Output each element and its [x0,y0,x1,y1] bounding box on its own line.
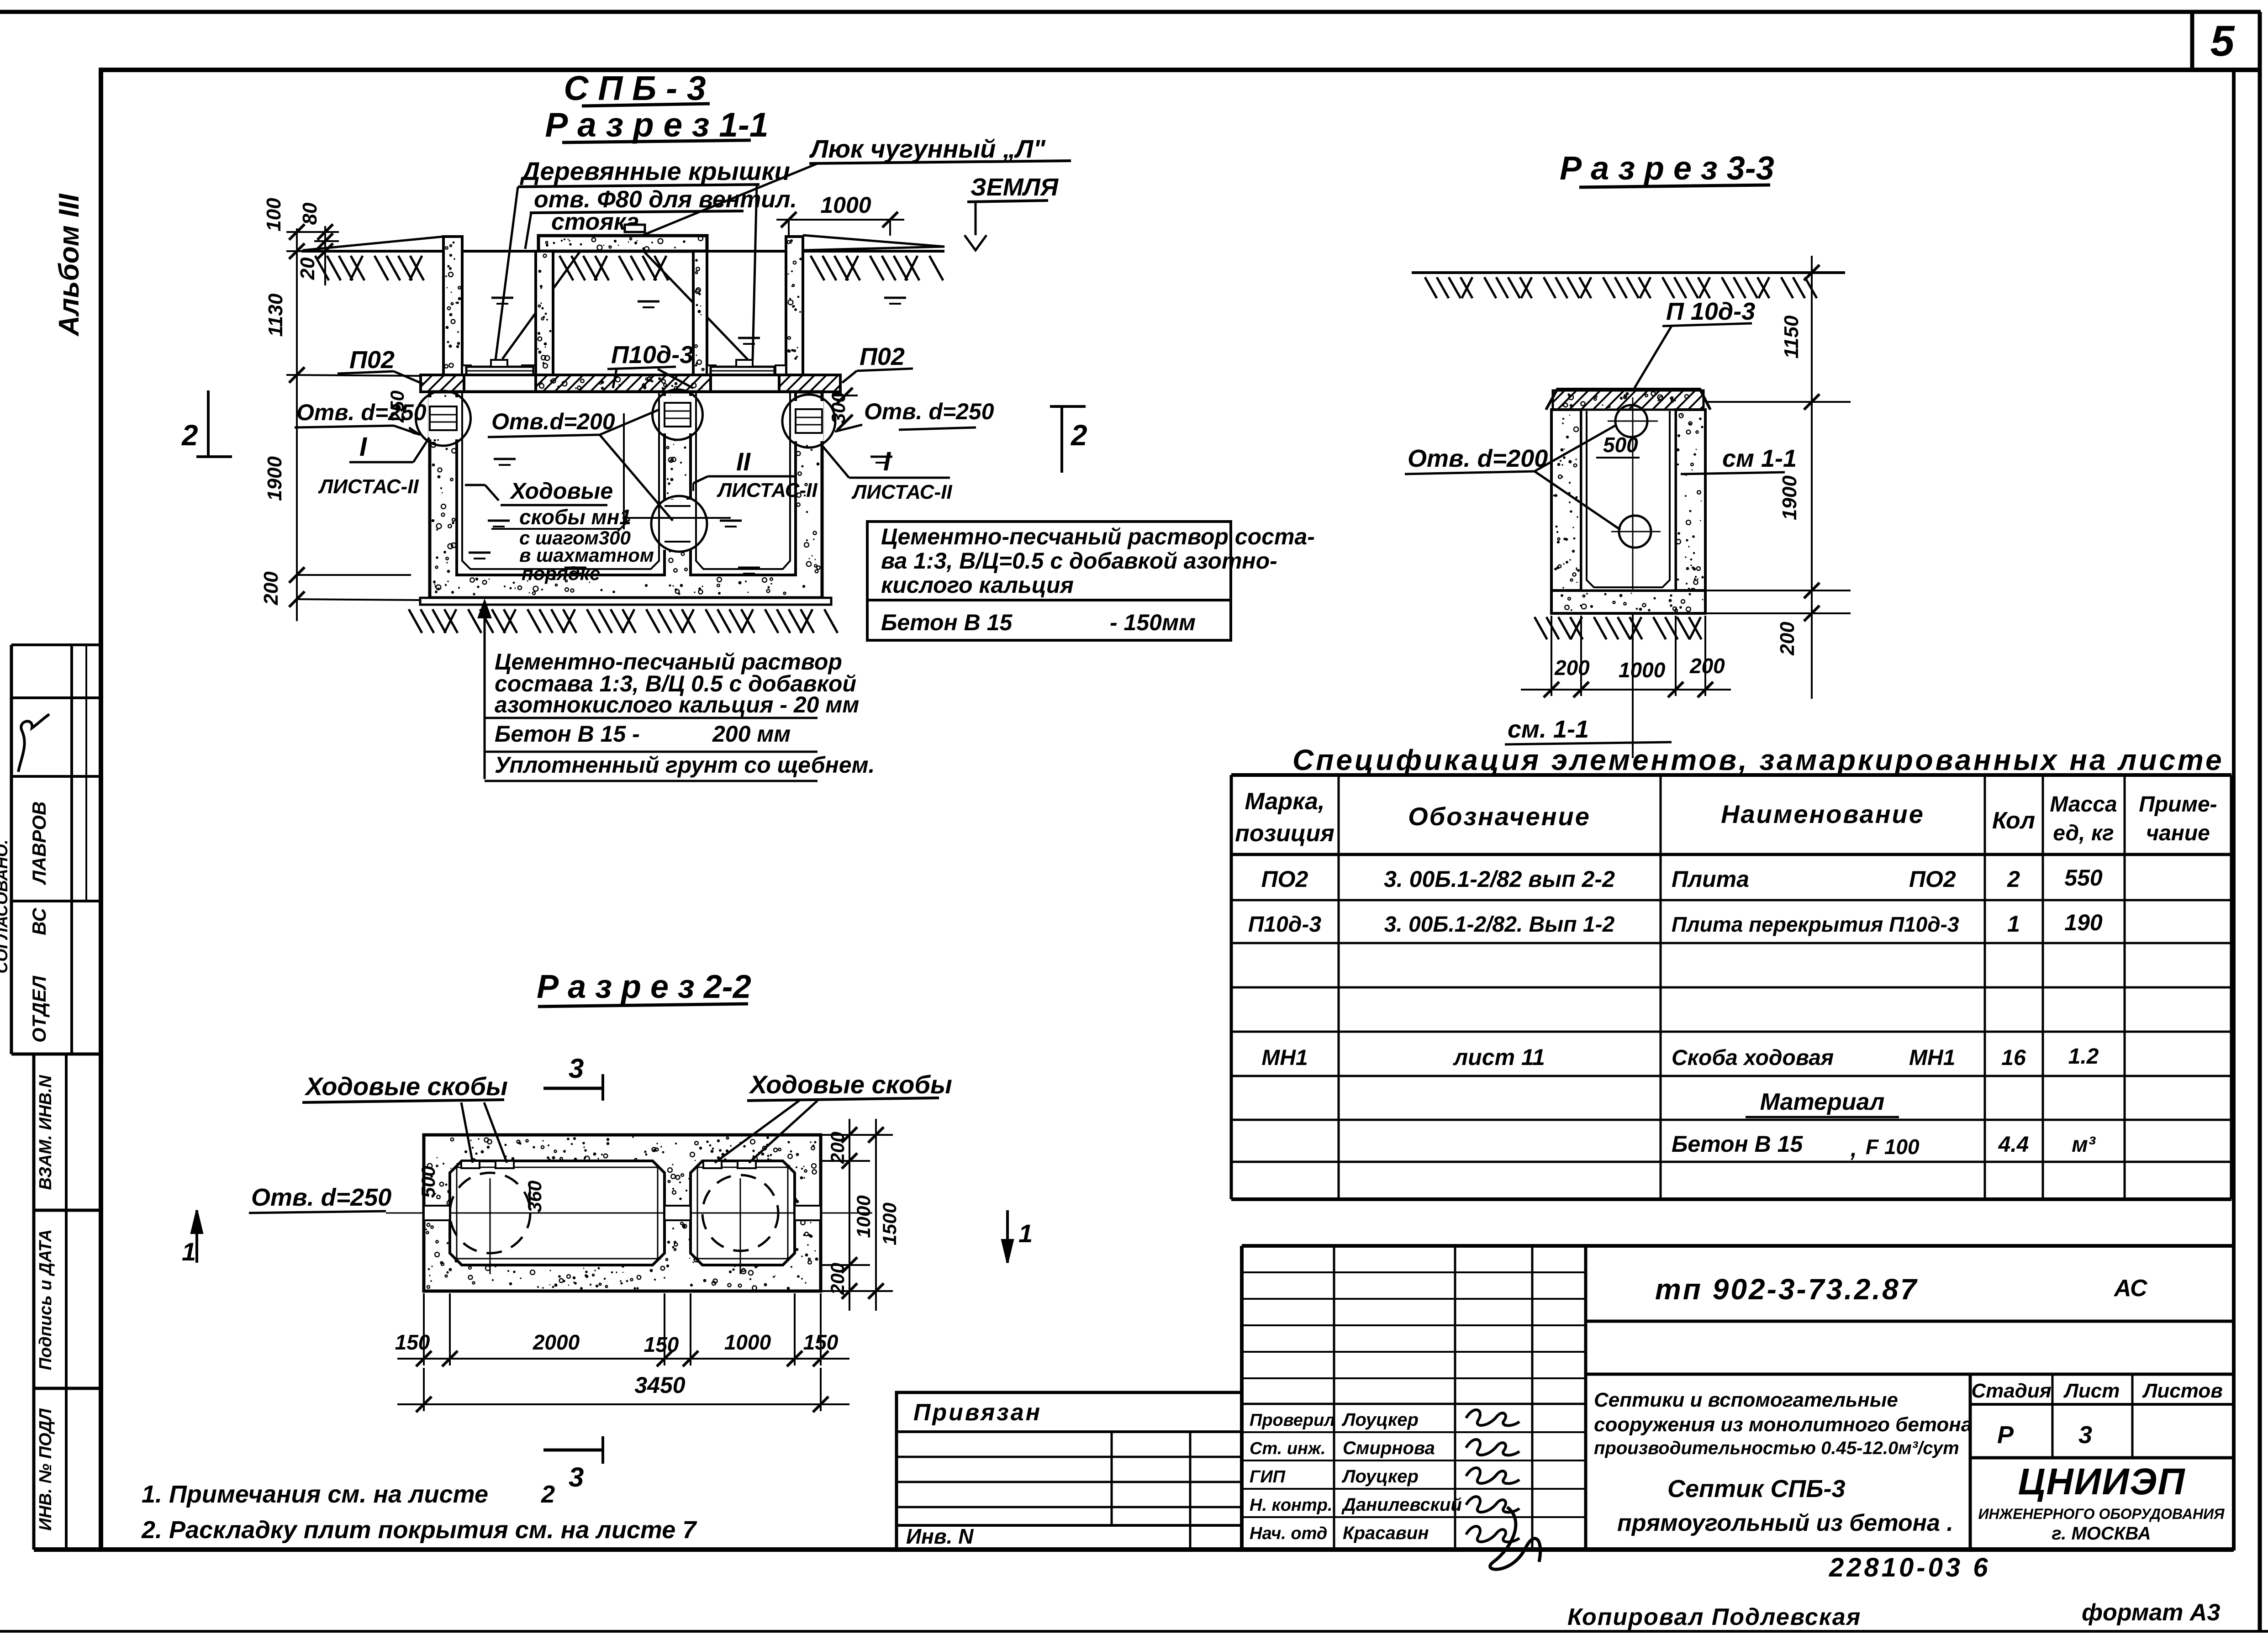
svg-text:Спецификация элементов, замарк: Спецификация элементов, замаркированных … [1292,743,2224,776]
svg-text:прямоугольный из бетона .: прямоугольный из бетона . [1617,1510,1953,1536]
svg-text:250: 250 [386,390,408,423]
svg-text:1. Примечания см. на листе: 1. Примечания см. на листе [142,1481,488,1508]
svg-text:1000: 1000 [853,1195,874,1238]
svg-text:1900: 1900 [1778,475,1801,520]
svg-text:м³: м³ [2072,1133,2096,1157]
svg-text:5: 5 [2210,17,2235,65]
svg-text:300: 300 [828,392,849,424]
svg-text:II: II [736,447,751,476]
svg-text:Стадия: Стадия [1971,1380,2051,1402]
svg-text:22810-03 6: 22810-03 6 [1829,1553,1990,1582]
svg-text:СОГЛАСОВАНО.: СОГЛАСОВАНО. [0,839,11,973]
svg-text:1.2: 1.2 [2068,1044,2099,1069]
svg-text:Кол: Кол [1992,807,2035,834]
svg-text:3. 00Б.1-2/82. Вып 1-2: 3. 00Б.1-2/82. Вып 1-2 [1384,912,1615,937]
svg-text:1: 1 [1018,1219,1033,1248]
svg-text:500: 500 [1603,433,1638,457]
svg-text:Септики и вспомогательные: Септики и вспомогательные [1594,1389,1898,1411]
svg-text:формат А3: формат А3 [2082,1599,2220,1626]
svg-text:ГИП: ГИП [1250,1467,1286,1487]
svg-text:1130: 1130 [264,293,287,337]
svg-text:1900: 1900 [264,456,286,501]
svg-text:Лист: Лист [2063,1380,2120,1402]
svg-text:,: , [1850,1136,1857,1161]
svg-text:ЛИСТАС-II: ЛИСТАС-II [318,475,419,498]
svg-text:Наименование: Наименование [1721,800,1925,828]
svg-text:1: 1 [182,1237,196,1266]
svg-text:чание: чание [2146,821,2210,845]
svg-text:Деревянные крышки: Деревянные крышки [520,157,790,185]
svg-text:200: 200 [827,1263,848,1295]
svg-text:Копировал Подлевская: Копировал Подлевская [1567,1604,1861,1630]
svg-text:200: 200 [260,571,282,606]
svg-text:2. Раскладку плит покрытия: 2. Раскладку плит покрытия см. на листе … [141,1516,697,1544]
svg-text:МН1: МН1 [1909,1046,1955,1070]
svg-text:Проверил: Проверил [1250,1411,1335,1430]
svg-text:Септик СПБ-3: Септик СПБ-3 [1667,1475,1845,1503]
svg-text:1000: 1000 [820,192,871,218]
svg-text:ЛАВРОВ: ЛАВРОВ [28,801,50,886]
svg-text:азотнокислого кальция - 20 мм: азотнокислого кальция - 20 мм [495,692,859,717]
svg-text:3450: 3450 [634,1372,685,1398]
svg-text:ОТДЕЛ: ОТДЕЛ [28,975,50,1043]
svg-text:F 100: F 100 [1866,1135,1920,1159]
svg-text:Отв. d=250: Отв. d=250 [864,399,994,424]
svg-text:Ст. инж.: Ст. инж. [1250,1439,1326,1458]
svg-text:Бетон В 15: Бетон В 15 [881,610,1013,635]
svg-text:ЛИСТАС-II: ЛИСТАС-II [851,481,952,503]
svg-text:2: 2 [2007,866,2020,892]
svg-text:Люк чугунный „Л": Люк чугунный „Л" [809,134,1046,163]
svg-text:Альбом III: Альбом III [53,193,85,337]
svg-text:ЛИСТАС-II: ЛИСТАС-II [717,479,818,501]
svg-text:I: I [359,432,368,462]
svg-text:I: I [883,447,891,476]
svg-text:2000: 2000 [533,1330,580,1354]
svg-text:200 мм: 200 мм [712,721,791,747]
svg-text:Р а з р е з 1-1: Р а з р е з 1-1 [545,105,768,144]
svg-text:4.4: 4.4 [1998,1133,2029,1157]
svg-text:2: 2 [181,419,198,452]
svg-text:Марка,: Марка, [1245,788,1325,815]
svg-text:ва 1:3, В/Ц=0.5 с добавкой азо: ва 1:3, В/Ц=0.5 с добавкой азотно- [881,548,1277,574]
svg-text:80: 80 [299,202,321,225]
svg-text:150: 150 [644,1333,679,1356]
svg-text:550: 550 [2064,865,2103,891]
svg-text:3: 3 [2078,1421,2092,1449]
svg-text:производительностью 0.45-12.0м: производительностью 0.45-12.0м³/сут [1594,1438,1959,1458]
svg-text:ПО2: ПО2 [1909,866,1956,892]
svg-text:1000: 1000 [724,1330,771,1354]
svg-text:200: 200 [827,1132,848,1164]
svg-text:С П Б - 3: С П Б - 3 [564,69,706,107]
svg-text:ИНЖЕНЕРНОГО ОБОРУДОВАНИЯ: ИНЖЕНЕРНОГО ОБОРУДОВАНИЯ [1978,1506,2225,1522]
svg-text:Плита: Плита [1672,866,1749,892]
svg-text:МН1: МН1 [1261,1046,1308,1070]
svg-text:200: 200 [1776,622,1799,656]
svg-text:Ходовые скобы: Ходовые скобы [749,1070,952,1099]
svg-text:Скоба ходовая: Скоба ходовая [1672,1046,1834,1070]
svg-text:ВС: ВС [28,908,50,935]
svg-text:Р а з р е з 2-2: Р а з р е з 2-2 [537,969,751,1005]
svg-text:3. 00Б.1-2/82 вып 2-2: 3. 00Б.1-2/82 вып 2-2 [1384,866,1615,892]
svg-text:200: 200 [1689,654,1725,678]
svg-text:Уплотненный грунт со щебнем.: Уплотненный грунт со щебнем. [495,752,875,778]
svg-text:Бетон В 15 -: Бетон В 15 - [495,721,640,747]
svg-text:см 1-1: см 1-1 [1722,445,1797,472]
svg-text:Н. контр.: Н. контр. [1250,1496,1333,1515]
svg-text:сооружения из монолитного бето: сооружения из монолитного бетона [1594,1413,1972,1436]
svg-text:Бетон В 15: Бетон В 15 [1672,1131,1803,1157]
svg-text:порядке: порядке [522,563,600,584]
svg-text:Масса: Масса [2050,792,2117,817]
svg-text:АС: АС [2113,1275,2148,1302]
svg-text:ВЗАМ. ИНВ.N: ВЗАМ. ИНВ.N [36,1075,55,1190]
svg-text:Приме-: Приме- [2139,792,2217,817]
svg-text:скобы мн1: скобы мн1 [519,505,631,529]
svg-text:Лоуцкер: Лоуцкер [1341,1410,1419,1430]
svg-text:Отв. d=250: Отв. d=250 [251,1184,391,1211]
svg-text:500: 500 [417,1166,439,1198]
svg-text:Красавин: Красавин [1343,1523,1429,1543]
svg-text:ИНВ. № ПОДЛ: ИНВ. № ПОДЛ [36,1408,55,1530]
svg-text:2: 2 [1071,419,1087,452]
svg-text:Ходовые: Ходовые [509,478,613,504]
svg-text:3: 3 [569,1462,584,1492]
svg-text:Нач. отд: Нач. отд [1250,1524,1327,1543]
svg-text:Ходовые скобы: Ходовые скобы [304,1072,508,1101]
svg-text:2: 2 [541,1481,555,1508]
svg-text:Обозначение: Обозначение [1408,802,1591,831]
svg-text:20: 20 [296,257,319,280]
svg-text:150: 150 [395,1330,430,1354]
svg-text:Смирнова: Смирнова [1343,1438,1435,1458]
svg-text:Инв. N: Инв. N [906,1524,974,1548]
svg-text:лист 11: лист 11 [1453,1044,1545,1070]
svg-text:100: 100 [263,198,285,232]
svg-text:тп 902-3-73.2.87: тп 902-3-73.2.87 [1655,1273,1918,1306]
svg-text:Материал: Материал [1760,1089,1885,1115]
svg-text:позиция: позиция [1235,820,1334,847]
svg-text:см. 1-1: см. 1-1 [1508,716,1589,743]
svg-text:ед, кг: ед, кг [2053,821,2114,845]
svg-text:200: 200 [1554,656,1590,680]
svg-text:Подпись и ДАТА: Подпись и ДАТА [36,1229,55,1371]
svg-text:Привязан: Привязан [913,1399,1042,1426]
svg-text:16: 16 [2001,1046,2026,1070]
svg-text:ЦНИИЭП: ЦНИИЭП [2018,1461,2186,1503]
svg-text:П10д-3: П10д-3 [1248,912,1322,937]
svg-text:ПО2: ПО2 [1261,866,1308,892]
svg-text:ЗЕМЛЯ: ЗЕМЛЯ [970,174,1059,201]
svg-text:г. МОСКВА: г. МОСКВА [2052,1524,2151,1544]
svg-text:Отв. d=200: Отв. d=200 [1408,445,1548,472]
svg-text:Данилевский: Данилевский [1341,1495,1462,1515]
svg-text:П02: П02 [349,346,395,374]
svg-text:1: 1 [2007,911,2020,937]
svg-text:190: 190 [2064,910,2103,935]
svg-text:360: 360 [524,1181,545,1213]
svg-text:- 150мм: - 150мм [1110,610,1196,635]
svg-text:Лоуцкер: Лоуцкер [1341,1466,1419,1487]
svg-text:Отв.d=200: Отв.d=200 [491,409,615,434]
svg-text:3: 3 [569,1053,584,1084]
svg-text:П 10д-3: П 10д-3 [1666,298,1755,325]
svg-text:кислого кальция: кислого кальция [881,572,1074,598]
svg-text:1000: 1000 [1619,658,1666,682]
svg-text:Р а з р е з 3-3: Р а з р е з 3-3 [1560,150,1774,187]
svg-text:1500: 1500 [879,1202,900,1245]
svg-text:Р: Р [1997,1421,2014,1449]
svg-text:1150: 1150 [1780,315,1803,359]
svg-text:Цементно-песчаный раствор сост: Цементно-песчаный раствор соста- [881,524,1315,549]
svg-text:П02: П02 [860,343,905,370]
svg-text:150: 150 [803,1330,839,1354]
svg-text:П10д-3: П10д-3 [611,341,693,369]
svg-text:Листов: Листов [2142,1380,2223,1402]
svg-text:Плита перекрытия П10д-3: Плита перекрытия П10д-3 [1672,912,1959,936]
